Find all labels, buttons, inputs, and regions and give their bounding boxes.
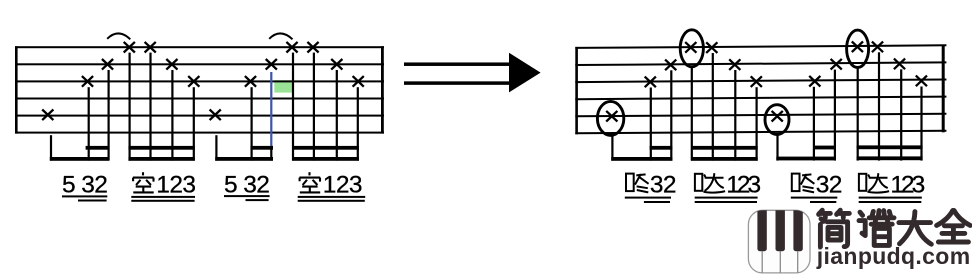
underline dong32 (1) b [644, 201, 670, 203]
note 2 m2 stem lower part [270, 150, 272, 161]
beam m3 group2 upper [691, 146, 758, 150]
beam m2 group2 upper [292, 146, 359, 150]
beam m3 group1 lower [611, 157, 672, 161]
note 1 m4 x-mark [872, 42, 883, 53]
note kong m2 x-mark [286, 42, 297, 53]
beam m3 group1 upper [650, 146, 673, 150]
note 5 m2 stem [215, 135, 217, 160]
beam m4 group1 lower [776, 157, 836, 161]
note 2b m4 stem [900, 69, 902, 160]
tie arc m2 [269, 33, 292, 39]
underline kong123 (2) b [298, 200, 365, 202]
note 5 m2 x-mark [210, 110, 221, 121]
note da m3 stem [691, 67, 693, 161]
beam m2 group2 lower [292, 157, 359, 161]
beam m1 group1 lower [50, 157, 109, 161]
note da m3 circle [680, 30, 703, 67]
beam m3 group2 lower [691, 157, 758, 161]
underline 5-32 (1) b [78, 200, 107, 202]
note 2b m1 stem [171, 70, 173, 161]
note da m4 circle [847, 30, 869, 67]
note 3 m4 x-mark [809, 76, 820, 87]
note 3 m3 stem [650, 88, 652, 161]
note dong m4 stem [776, 135, 778, 161]
beam m4 group2 lower [857, 156, 923, 160]
note 2 m1 x-mark [102, 59, 113, 70]
note dong m4 circle [765, 105, 789, 135]
underline 5-32 (1) a [62, 195, 107, 197]
note kong m1 stem [129, 53, 131, 161]
beam m4 group2 upper [857, 145, 923, 149]
svg-text:jianpudq.com: jianpudq.com [816, 243, 971, 269]
underline kong123 (1) b [131, 200, 194, 202]
underline kong123 (2) a [298, 196, 366, 198]
underline dong32 (1) a [625, 197, 671, 199]
arrow shaft top [404, 62, 509, 65]
svg-text:123: 123 [156, 171, 195, 198]
logo piano icon [748, 208, 810, 273]
left staff lines [15, 46, 384, 48]
note 3b m1 stem [193, 87, 195, 160]
note 1 m1 stem [149, 53, 151, 161]
beam m2 group1 upper [250, 146, 273, 150]
note kong m2 stem [292, 53, 294, 161]
arrow shaft bottom [404, 81, 509, 85]
underline da123 (2) b [859, 201, 922, 203]
svg-text:5 32: 5 32 [224, 171, 269, 198]
note 2 m1 stem [108, 70, 110, 161]
highlight marker (green) [274, 80, 293, 92]
note 3 m4 stem [813, 87, 815, 161]
note dong m4 x-mark [772, 111, 783, 122]
note 3b m4 stem [920, 87, 922, 161]
note 2 m2 x-mark [266, 59, 277, 70]
beam m4 group1 upper [813, 146, 836, 150]
note 2b m2 x-mark [331, 59, 342, 70]
note 1 m3 x-mark [706, 42, 717, 53]
label kong123 (1) kong glyph [133, 172, 154, 192]
note da m4 stem [857, 68, 859, 161]
note 1 m3 stem [712, 53, 714, 161]
label da123 (1) da glyph [695, 173, 725, 192]
note 5 m1 x-mark [42, 110, 53, 121]
note 1 m1 x-mark [145, 42, 156, 53]
note 3b m2 stem [357, 87, 359, 160]
note dong m3 x-mark [606, 111, 617, 122]
left staff barline left [15, 46, 18, 133]
note kong m1 x-mark [124, 42, 135, 53]
note 1 m4 stem [878, 52, 880, 160]
note dong m3 circle [597, 101, 623, 135]
note 3b m3 x-mark [751, 76, 762, 87]
underline da123 (1) b [695, 201, 757, 203]
svg-text:123: 123 [323, 171, 362, 198]
beam m1 group1 upper [86, 146, 109, 150]
note 2 m3 x-mark [665, 60, 676, 71]
underline da123 (2) a [859, 197, 922, 199]
note 3 m2 stem [251, 87, 253, 160]
note 5 m1 stem [50, 135, 52, 160]
note 2b m4 x-mark [894, 59, 905, 70]
note 2b m2 stem [336, 70, 338, 161]
svg-text:5 32: 5 32 [62, 171, 107, 198]
right staff lines [575, 45, 946, 48]
note 1 m2 stem [313, 53, 315, 161]
note da m4 x-mark [852, 42, 863, 53]
beam m1 group2 upper [128, 146, 194, 150]
note 2 m2 selected stem (blue) [270, 72, 272, 150]
note 2b m3 x-mark [729, 59, 740, 70]
left staff barline right [381, 46, 384, 133]
svg-text:123: 123 [890, 171, 924, 198]
note 2b m1 x-mark [166, 59, 177, 70]
note 3 m2 x-mark [245, 76, 256, 87]
svg-text:123: 123 [726, 171, 760, 198]
note 1 m2 x-mark [307, 42, 318, 53]
label dong32 (2) dong glyph [792, 174, 815, 193]
note 3b m3 stem [756, 87, 758, 160]
beam m1 group2 lower [128, 157, 194, 161]
arrow head [509, 53, 541, 93]
beam m2 group1 lower [215, 157, 273, 161]
underline kong123 (1) a [131, 196, 195, 198]
logo char jian [819, 210, 850, 247]
logo char da2 [899, 212, 931, 245]
underline 5-32 (2) b [246, 199, 269, 201]
tie arc m1 [107, 33, 130, 39]
note 2 m4 stem [834, 70, 836, 161]
logo char pu [859, 211, 894, 246]
note 2 m3 stem [670, 70, 672, 160]
label kong123 (2) kong glyph [299, 172, 320, 192]
label da123 (2) da glyph [859, 173, 889, 192]
underline da123 (1) a [695, 197, 758, 199]
note 3 m1 x-mark [82, 76, 93, 87]
note 3b m1 x-mark [188, 76, 199, 87]
note dong m3 stem [611, 135, 613, 160]
label dong32 (1) dong glyph [626, 174, 649, 193]
right staff barline left [575, 47, 578, 134]
note 3 m3 x-mark [645, 77, 656, 88]
right staff barline right [942, 45, 945, 132]
svg-text:32: 32 [650, 171, 676, 198]
note 2b m3 stem [734, 70, 736, 161]
underline dong32 (2) a [791, 197, 838, 199]
underline dong32 (2) b [810, 201, 836, 203]
note 3b m2 x-mark [353, 76, 364, 87]
note 3b m4 x-mark [916, 76, 927, 87]
underline 5-32 (2) a [224, 195, 270, 197]
note 2 m4 x-mark [831, 59, 842, 70]
logo char quan [937, 210, 971, 242]
note da m3 x-mark [685, 42, 696, 53]
svg-text:32: 32 [816, 171, 842, 198]
note 3 m1 stem [88, 87, 90, 160]
